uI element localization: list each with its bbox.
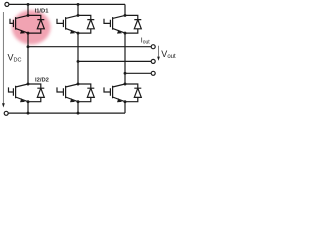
svg-text:I1/D1: I1/D1 — [35, 9, 50, 15]
svg-text:I2/D2: I2/D2 — [35, 77, 49, 83]
svg-text:Iout: Iout — [141, 38, 151, 46]
